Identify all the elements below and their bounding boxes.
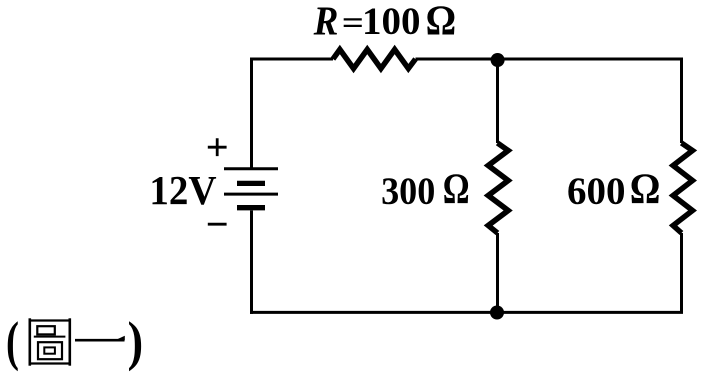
wire left lower — [250, 211, 253, 314]
battery plus sign — [208, 138, 227, 156]
battery V1 plate long top — [224, 167, 278, 170]
resistor R1 zigzag horizontal — [333, 50, 416, 69]
svg-text:(: ( — [6, 312, 19, 372]
tu inner mouth box — [37, 326, 55, 334]
svg-text:12V: 12V — [149, 167, 216, 213]
wire right upper — [680, 58, 683, 144]
tu outer box bottom stroke — [29, 362, 72, 364]
svg-text:): ) — [128, 311, 144, 372]
tu inner wide stroke — [34, 336, 66, 338]
caption glyph yi (one) stroke — [75, 339, 125, 342]
wire bottom — [250, 311, 683, 314]
battery V1 plate long lower — [224, 193, 278, 196]
battery minus sign — [208, 223, 227, 226]
tu inner hui outer box — [38, 342, 62, 359]
svg-text:Ω: Ω — [630, 165, 661, 213]
tu outer box right stroke — [69, 318, 72, 365]
wire top-left segment — [252, 58, 334, 61]
svg-text:100: 100 — [362, 0, 421, 43]
wire middle upper — [496, 59, 499, 143]
svg-text:R: R — [313, 0, 339, 44]
caption glyph tu (figure) — [29, 318, 72, 365]
node junction dot top — [491, 53, 505, 67]
svg-text:300: 300 — [381, 170, 435, 214]
battery V1 plate short bottom — [237, 205, 265, 210]
caption glyph yi (one) end serif — [115, 336, 125, 340]
wire left upper — [250, 58, 253, 168]
tu outer box left stroke — [28, 318, 31, 365]
tu outer box top stroke — [29, 319, 72, 321]
wire top-right segment — [416, 58, 682, 61]
svg-text:600: 600 — [567, 170, 626, 213]
tu inner hui inner box — [44, 347, 55, 353]
node junction dot bottom — [490, 306, 504, 320]
resistor R2 300ohm zigzag — [488, 143, 508, 233]
wire right lower — [680, 233, 683, 312]
resistor R3 600ohm zigzag — [673, 143, 692, 233]
wire middle lower — [496, 233, 499, 312]
svg-text:=: = — [342, 4, 364, 41]
svg-text:Ω: Ω — [443, 166, 470, 213]
svg-text:Ω: Ω — [426, 0, 456, 44]
battery V1 plate short upper — [237, 181, 265, 186]
